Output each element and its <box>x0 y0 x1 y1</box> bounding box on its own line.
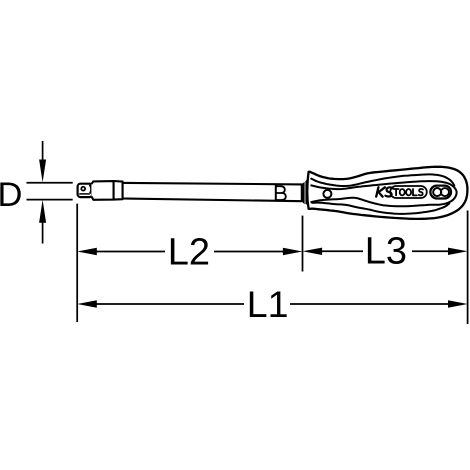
middle extension line <box>302 216 304 272</box>
emblem rings <box>430 186 451 199</box>
ferrule collar <box>301 178 308 205</box>
sleeve ring <box>114 181 123 200</box>
adapter sleeve <box>91 181 122 200</box>
square drive tip <box>78 184 93 197</box>
D bottom arrow <box>39 200 46 244</box>
detent ball <box>81 187 85 191</box>
TOOLS stadium <box>390 186 427 198</box>
svg-text:D: D <box>0 176 22 214</box>
tip chamfer line <box>79 193 90 195</box>
left extension line <box>76 204 78 322</box>
retaining clip B <box>276 185 286 202</box>
shaft <box>123 183 302 201</box>
svg-text:L1: L1 <box>247 283 289 325</box>
L3 dimension line <box>303 248 468 255</box>
svg-text:L3: L3 <box>365 231 407 273</box>
handle outline <box>307 167 467 219</box>
L1 dimension line <box>77 300 467 307</box>
face panel (funnel + oval) <box>311 181 457 206</box>
KS TOOLS logo <box>376 186 427 198</box>
svg-text:L2: L2 <box>168 231 210 273</box>
L2 dimension line <box>77 248 302 255</box>
grip inset line <box>311 174 455 214</box>
right extension line <box>467 211 469 325</box>
S glyph <box>385 187 392 196</box>
D top extension line <box>27 182 73 184</box>
D top arrow <box>39 141 46 182</box>
tip corner arc <box>90 185 92 194</box>
TOOLS letters <box>394 189 399 195</box>
K glyph <box>376 187 385 196</box>
D bottom extension line <box>27 199 73 201</box>
handle hole <box>323 190 331 198</box>
